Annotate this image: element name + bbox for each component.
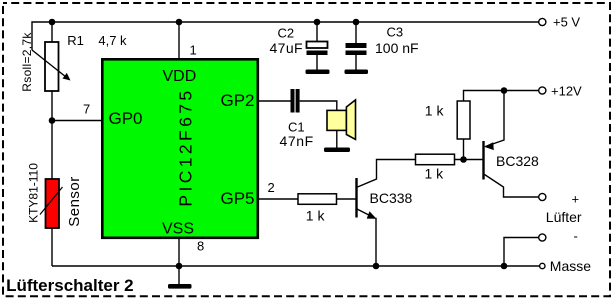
- svg-text:100 nF: 100 nF: [375, 40, 419, 56]
- svg-text:-: -: [574, 229, 578, 244]
- svg-text:Lüfterschalter 2: Lüfterschalter 2: [6, 276, 134, 295]
- svg-text:KTY81-110: KTY81-110: [27, 163, 41, 223]
- svg-text:VSS: VSS: [162, 221, 194, 238]
- svg-text:1 k: 1 k: [425, 166, 445, 182]
- svg-text:8: 8: [197, 239, 204, 254]
- svg-text:1 k: 1 k: [425, 103, 445, 119]
- svg-text:R1 4,7 k: R1 4,7 k: [67, 33, 127, 48]
- svg-text:GP2: GP2: [220, 91, 254, 110]
- svg-text:VDD: VDD: [163, 68, 197, 85]
- svg-text:47nF: 47nF: [280, 133, 314, 149]
- svg-text:+12V: +12V: [551, 84, 582, 99]
- svg-text:C3: C3: [387, 25, 404, 40]
- svg-text:2: 2: [268, 180, 275, 195]
- svg-text:PIC12F675: PIC12F675: [176, 87, 196, 206]
- svg-text:BC338: BC338: [370, 190, 413, 206]
- svg-text:Masse: Masse: [550, 258, 591, 274]
- svg-text:C2: C2: [278, 26, 295, 41]
- svg-text:GP5: GP5: [220, 189, 254, 208]
- svg-text:7: 7: [83, 102, 90, 117]
- svg-text:Rsoll=2,7k: Rsoll=2,7k: [20, 32, 34, 92]
- svg-text:+5 V: +5 V: [553, 15, 580, 30]
- svg-text:GP0: GP0: [109, 109, 143, 128]
- svg-text:Lüfter: Lüfter: [546, 209, 582, 225]
- svg-text:Sensor: Sensor: [66, 176, 83, 227]
- svg-text:47uF: 47uF: [270, 40, 304, 56]
- svg-text:BC328: BC328: [496, 153, 539, 169]
- svg-text:+: +: [572, 192, 580, 207]
- svg-text:1 k: 1 k: [306, 208, 326, 224]
- svg-text:1: 1: [190, 43, 197, 58]
